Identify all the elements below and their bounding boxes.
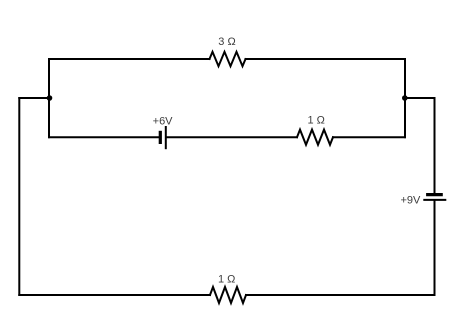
wire left outer vertical [18,98,20,295]
battery V1 +6V short plate [159,132,162,142]
wire bottom horizontal right segment [246,294,435,296]
wire middle branch right segment [333,136,405,138]
resistor R1 3&#937; zigzag (top) [210,52,246,66]
wire right outer vertical lower [434,201,436,295]
svg-text:+9V: +9V [400,194,421,206]
svg-text:1 Ω: 1 Ω [218,274,235,286]
wire left inner vertical [48,59,50,137]
wire middle branch center segment [167,136,297,138]
wire right outer vertical upper [434,98,436,193]
resistor R3 1&#937; zigzag (bottom) [210,287,246,303]
node junction dot right [402,95,408,101]
battery V2 +9V short plate [428,193,442,196]
wire bottom horizontal left segment [19,294,210,296]
wire top horizontal right segment [246,58,406,60]
wire right inner vertical [404,59,406,137]
battery V2 +9V long plate [424,199,445,201]
wire left node stub [19,97,49,99]
node junction dot left [47,95,53,101]
wire top horizontal left segment [49,58,210,60]
wire middle branch left segment [49,136,159,138]
svg-text:3 Ω: 3 Ω [218,36,235,48]
wire right node stub [405,97,435,99]
svg-text:1 Ω: 1 Ω [307,114,324,126]
battery V1 +6V long plate [165,127,167,148]
resistor R2 1&#937; zigzag (middle) [297,130,333,145]
svg-text:+6V: +6V [153,116,174,128]
